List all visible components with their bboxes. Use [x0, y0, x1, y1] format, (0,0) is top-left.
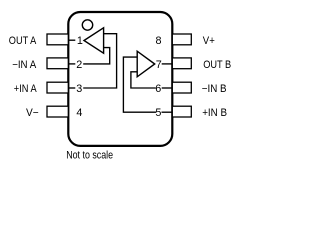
pin 7 lead box	[172, 58, 191, 69]
pin 5 tick	[162, 111, 172, 113]
pin 1 indicator circle	[82, 20, 92, 30]
pin 6 lead box	[172, 82, 191, 93]
wire: B top input to pin 5	[123, 57, 156, 112]
wire: B bottom input to pin 6	[131, 72, 156, 88]
pin 2 lead box	[47, 58, 68, 69]
svg-text:Not to scale: Not to scale	[66, 150, 113, 162]
svg-text:2: 2	[76, 59, 82, 71]
IC package body (8-pin top view)	[68, 12, 172, 146]
pin 1 lead box	[47, 34, 68, 45]
svg-text:V−: V−	[26, 107, 39, 119]
pin 2 tick	[68, 63, 75, 65]
svg-text:1: 1	[77, 35, 83, 47]
wire: A top input to pin 3	[83, 34, 116, 88]
pin 5 lead box	[172, 106, 191, 117]
svg-text:6: 6	[155, 83, 161, 95]
pin 4 lead box	[47, 106, 68, 117]
op-amp A triangle	[84, 28, 104, 53]
svg-text:3: 3	[76, 83, 82, 95]
pin 1 tick	[68, 39, 75, 41]
svg-text:+IN A: +IN A	[14, 83, 38, 95]
svg-text:OUT B: OUT B	[203, 59, 231, 71]
pin 3 lead box	[47, 82, 68, 93]
op-amp B triangle	[137, 51, 155, 77]
svg-text:−IN A: −IN A	[12, 59, 37, 71]
svg-text:5: 5	[155, 107, 161, 119]
svg-text:8: 8	[155, 35, 161, 47]
svg-text:+IN B: +IN B	[202, 107, 227, 119]
svg-text:−IN B: −IN B	[202, 83, 227, 95]
pin 3 tick	[68, 87, 75, 89]
pin 7 tick	[162, 63, 172, 65]
wire: A bottom input to pin 2	[83, 48, 110, 64]
svg-text:4: 4	[76, 107, 82, 119]
pin 8 lead box	[172, 34, 191, 45]
svg-text:OUT A: OUT A	[9, 35, 37, 47]
svg-text:7: 7	[156, 59, 162, 71]
pin 6 tick	[162, 87, 172, 89]
svg-text:V+: V+	[203, 35, 215, 47]
